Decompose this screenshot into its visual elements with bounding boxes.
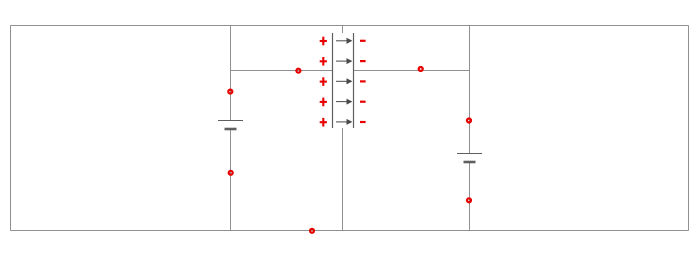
wire center stem top <box>342 26 344 34</box>
wire left <box>10 26 12 231</box>
wire center below capacitor <box>342 128 344 231</box>
wire bottom <box>11 230 689 232</box>
capacitor C1 left plate <box>332 33 334 128</box>
node d <box>419 67 423 71</box>
wire top <box>11 25 689 27</box>
plus charge 4 <box>320 98 327 107</box>
minus charge 2 <box>360 60 366 62</box>
node b <box>229 171 233 175</box>
wire right <box>688 26 690 231</box>
node e <box>467 119 471 123</box>
wire left branch upper <box>230 26 232 121</box>
plus charge 1 <box>320 37 327 46</box>
node a <box>228 90 232 94</box>
wire middle rung left <box>231 70 333 72</box>
field arrow 2 <box>336 59 351 63</box>
battery B1 long plate <box>218 120 243 122</box>
wire right branch upper <box>469 26 471 154</box>
field arrow 5 <box>336 120 351 124</box>
node g <box>310 229 314 233</box>
node f <box>467 198 471 202</box>
battery B2 long plate <box>457 153 482 155</box>
plus charge 3 <box>320 77 327 86</box>
wire left branch lower <box>230 129 232 231</box>
wire middle rung right <box>354 70 470 72</box>
minus charge 4 <box>360 101 366 103</box>
node c <box>296 69 300 73</box>
field arrow 4 <box>336 99 351 103</box>
plus charge 2 <box>320 57 327 66</box>
field arrow 1 <box>336 39 351 43</box>
plus charge 5 <box>320 118 327 127</box>
battery B2 short plate <box>464 161 476 164</box>
minus charge 3 <box>360 80 366 82</box>
minus charge 5 <box>360 121 366 123</box>
capacitor C1 right plate <box>353 33 355 128</box>
battery B1 short plate <box>225 128 237 131</box>
field arrow 3 <box>336 79 351 83</box>
minus charge 1 <box>360 40 366 42</box>
wire right branch lower <box>469 162 471 231</box>
